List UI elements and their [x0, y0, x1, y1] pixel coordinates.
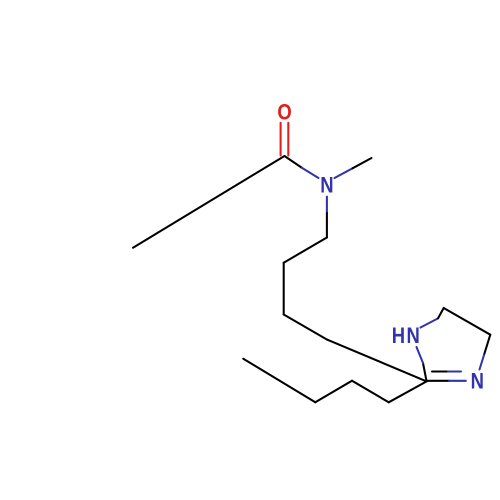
bond ring C2-N1 (carbon half) [423, 363, 427, 381]
bond ring C2-N1 (nitrogen half) [417, 347, 424, 363]
svg-text:O: O [277, 100, 291, 125]
bond ring N1-C5 (carbon half) [438, 308, 444, 318]
bond C1-N amide (nitrogen half) [302, 168, 319, 178]
bond ring C2=N3 main line (nitrogen half) [449, 380, 466, 382]
bond ring C2=N3 main line (carbon half) [427, 380, 449, 382]
bond C1=O carbonyl double bond line 1 [280, 123, 282, 156]
wire chain shallow straight bond run to ring C2 [327, 340, 426, 382]
svg-text:N: N [407, 323, 420, 348]
svg-text:N: N [320, 173, 333, 198]
wire chain bond CH2-CH2 vertical [283, 263, 285, 315]
bond N-CH2 vertical (carbon half) [326, 213, 328, 238]
bond ring N1-C5 (nitrogen half) [421, 318, 439, 327]
svg-text:H: H [392, 323, 405, 348]
wire chain bond CH2-CH2 down-left [284, 238, 327, 263]
wire butyl zigzag bond 2 [352, 381, 389, 403]
bond N-CH2 vertical (nitrogen half) [326, 197, 328, 213]
wire butyl zigzag bond 1 from C2 [389, 381, 427, 402]
bond ring C2=N3 inner double line (carbon half) [432, 370, 448, 372]
wire butyl zigzag bond 3 [315, 381, 352, 403]
bond ring C5-C4 [444, 308, 491, 335]
wire butyl zigzag terminal straight run [243, 359, 315, 403]
bond ring C4-N3 (carbon half) [484, 335, 490, 355]
bond N-CH3 methyl (nitrogen half) [335, 168, 353, 178]
svg-text:N: N [471, 369, 484, 394]
bond C1-N amide (carbon half) [285, 156, 303, 168]
bond N-CH3 methyl (carbon half) [353, 158, 372, 168]
wire top-left straight chain run from C1 [133, 156, 285, 248]
bond C1=O carbonyl double bond line 2 [287, 123, 289, 156]
bond ring C4-N3 (nitrogen half) [480, 355, 485, 370]
wire chain bond CH2-CH2 down-right [284, 315, 328, 340]
bond ring C2=N3 inner double line (nitrogen half) [448, 370, 461, 372]
